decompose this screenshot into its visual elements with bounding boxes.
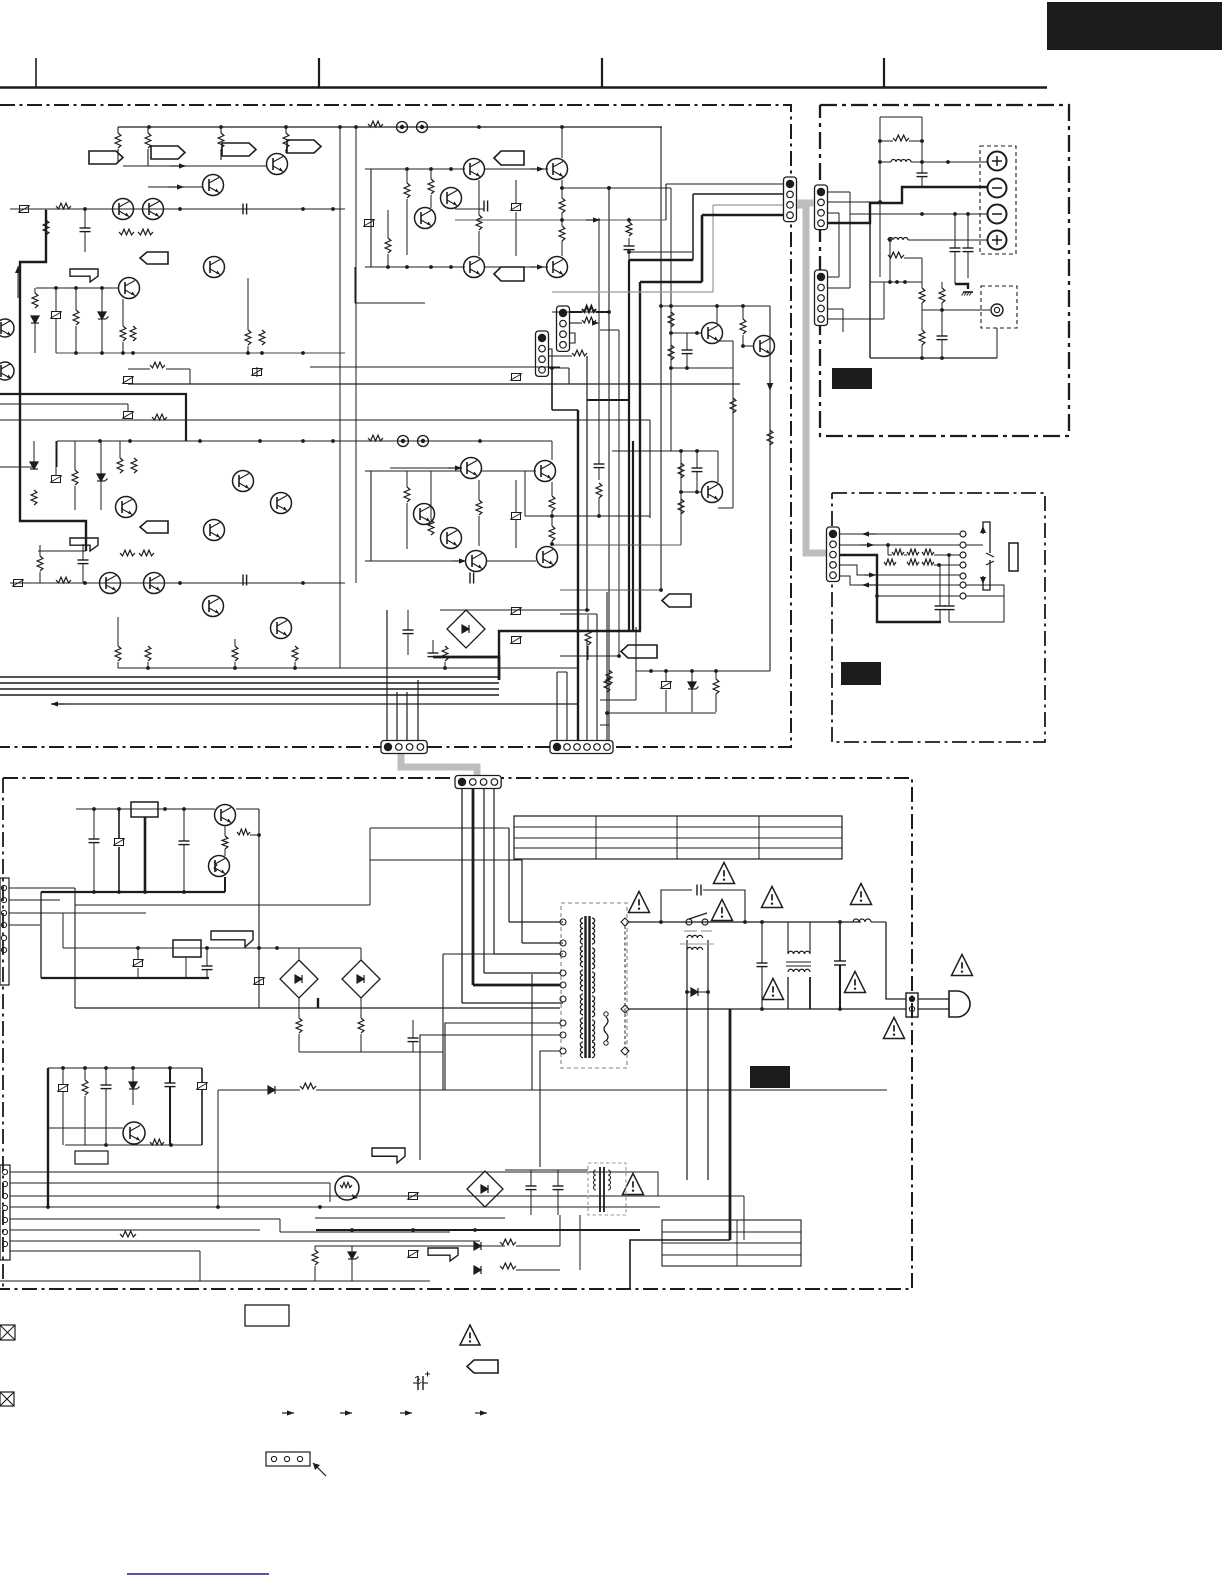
wire bbox=[551, 368, 553, 410]
warning triangle bbox=[851, 883, 872, 904]
resistor R139 bbox=[476, 215, 482, 230]
wire bus B1 bbox=[0, 676, 499, 678]
wire bbox=[0, 419, 650, 421]
warning triangle bbox=[714, 862, 735, 883]
legend polarized cap symbol bbox=[417, 1376, 419, 1390]
resistor R301 bbox=[893, 135, 909, 141]
jack contact bend bbox=[966, 544, 983, 546]
black label box bbox=[832, 368, 872, 389]
resistor R305 bbox=[919, 288, 925, 303]
wire bbox=[556, 672, 558, 741]
callout bbox=[70, 269, 98, 282]
warning triangle bbox=[623, 1173, 644, 1194]
trimmer bbox=[365, 220, 374, 227]
wire base bbox=[671, 332, 701, 334]
wire long return bbox=[128, 383, 740, 385]
transistor Q507 (photocoupler) bbox=[335, 1176, 359, 1200]
warning triangle bbox=[629, 891, 650, 912]
wire to +L terminal bbox=[922, 161, 987, 163]
zener D103 bbox=[98, 312, 106, 319]
resistor R233 bbox=[428, 520, 434, 535]
wire bbox=[365, 168, 465, 170]
transistor Q115 bbox=[441, 188, 462, 209]
diode D505 bbox=[691, 988, 698, 996]
transistor Q505 bbox=[123, 1122, 145, 1144]
resistor R145 bbox=[582, 306, 596, 312]
wire bbox=[888, 554, 892, 556]
label flag bbox=[89, 151, 123, 164]
wire bbox=[596, 614, 598, 741]
wire bbox=[549, 367, 569, 369]
wire heavy bbox=[587, 399, 629, 401]
resistor R105 bbox=[218, 133, 224, 148]
black label box bbox=[841, 662, 881, 685]
transistor Q225 bbox=[535, 461, 556, 482]
resistor R121 bbox=[120, 326, 126, 341]
jack sleeve bbox=[1009, 543, 1018, 571]
resistor R135 bbox=[428, 179, 434, 194]
wire bbox=[493, 789, 495, 954]
wire bbox=[420, 1035, 560, 1160]
wire bbox=[300, 947, 361, 949]
zener D513 bbox=[348, 1252, 356, 1259]
trimmer bbox=[255, 978, 264, 985]
bridge rectifier D205 bbox=[447, 610, 485, 648]
transistor Q101 bbox=[267, 154, 288, 175]
capacitor C105 bbox=[483, 201, 485, 212]
wire to -R terminal bbox=[850, 213, 988, 215]
bridge rectifier D501 bbox=[280, 960, 318, 998]
resistor R111 bbox=[43, 220, 49, 235]
transistor Q209 bbox=[100, 573, 121, 594]
wire bbox=[719, 340, 733, 342]
wire bbox=[481, 470, 536, 472]
standby transformer T502 bbox=[686, 940, 688, 1180]
wire bbox=[996, 328, 998, 358]
wire long vertical bbox=[339, 127, 341, 668]
wire bbox=[889, 240, 891, 282]
wire bbox=[442, 954, 444, 1090]
resistor R223 bbox=[232, 646, 238, 661]
capacitor C301 bbox=[917, 172, 928, 174]
wire bbox=[0, 466, 34, 468]
resistor R147 bbox=[582, 317, 596, 323]
capacitor C505 bbox=[202, 965, 213, 967]
transistor Q203 bbox=[233, 471, 254, 492]
wire bbox=[649, 420, 651, 518]
wire heavy rail bbox=[41, 891, 225, 893]
resistor R403 bbox=[907, 549, 919, 555]
wire bbox=[390, 467, 461, 469]
capacitor C203 bbox=[242, 575, 244, 586]
resistor R140 bbox=[626, 222, 632, 236]
diode D201 bbox=[30, 462, 38, 469]
trimmer bbox=[512, 637, 521, 644]
grey wire link bbox=[797, 200, 814, 207]
transistor Q233 (FET) bbox=[0, 319, 14, 337]
wire heavy bbox=[702, 214, 787, 217]
phono jack bbox=[991, 304, 1003, 316]
fuse symbol legend 2 bbox=[0, 1392, 14, 1406]
transistor Q103 bbox=[203, 175, 224, 196]
heatsink ground bbox=[963, 291, 973, 293]
wire bbox=[922, 309, 990, 311]
wire bbox=[365, 560, 465, 562]
resistor R155 bbox=[668, 345, 674, 360]
wire bbox=[840, 576, 960, 585]
wire rail2 bbox=[63, 947, 300, 949]
resistor R163 bbox=[678, 463, 684, 478]
transistor Q105 bbox=[113, 199, 134, 220]
wire bbox=[608, 188, 610, 741]
warning triangle bbox=[884, 1017, 905, 1038]
resistor R517 bbox=[500, 1239, 516, 1245]
wire bbox=[561, 127, 563, 158]
trimmer bbox=[59, 1085, 68, 1092]
resistor R113 bbox=[119, 229, 134, 235]
resistor R165 bbox=[678, 499, 684, 514]
wire bus risers bbox=[386, 610, 388, 741]
wire bbox=[355, 302, 425, 304]
transistor Q117 bbox=[415, 208, 436, 229]
wire bus B2 bbox=[0, 682, 499, 684]
diode D509 bbox=[268, 1086, 275, 1094]
transistor Q109 bbox=[204, 257, 225, 278]
wire bbox=[189, 369, 191, 384]
trimmer bbox=[134, 960, 143, 967]
wire bbox=[870, 281, 922, 283]
capacitor C117 bbox=[692, 467, 703, 469]
resistor R107 bbox=[283, 133, 289, 148]
wire bbox=[840, 544, 960, 546]
resistor R211 bbox=[56, 577, 71, 583]
resistor R247 bbox=[713, 679, 719, 694]
terminal - (R) bbox=[988, 205, 1007, 224]
wire bbox=[827, 276, 839, 278]
connector CN405 bbox=[0, 1165, 10, 1260]
label flag bbox=[287, 140, 321, 153]
capacitor C501 bbox=[89, 838, 100, 840]
resistor R502 bbox=[237, 829, 250, 835]
title block (black) bbox=[1047, 2, 1222, 50]
label flag bbox=[222, 143, 256, 156]
wire bbox=[827, 287, 850, 289]
wire bbox=[670, 188, 672, 451]
wire bbox=[531, 974, 533, 1090]
label flag bbox=[140, 521, 168, 533]
wire bbox=[743, 345, 753, 347]
resistor R519 bbox=[500, 1263, 516, 1269]
wire bbox=[560, 589, 661, 591]
wire bbox=[62, 913, 64, 948]
connector CN203 bbox=[815, 270, 828, 326]
small transformer T503 bbox=[588, 1163, 626, 1215]
ruler tick 2 bbox=[318, 58, 320, 87]
table T2 bbox=[662, 1220, 801, 1266]
wire bbox=[635, 627, 637, 671]
connector CN201 bbox=[815, 185, 828, 230]
wire bbox=[566, 672, 568, 741]
label flag bbox=[151, 146, 185, 159]
wire bbox=[10, 1182, 330, 1184]
wire bbox=[0, 1280, 430, 1282]
wire bbox=[570, 333, 575, 343]
trimmer bbox=[662, 682, 671, 689]
resistor R209 bbox=[31, 490, 37, 505]
wire bbox=[505, 1169, 588, 1171]
legend arrow 1 bbox=[282, 1412, 294, 1414]
wire heavy bbox=[472, 789, 475, 985]
wire bbox=[370, 471, 372, 561]
resistor R131 bbox=[368, 121, 383, 127]
wire bbox=[462, 1002, 563, 1004]
choke L501 bbox=[788, 951, 810, 954]
transformer terminals bbox=[560, 919, 566, 925]
wire thick return bbox=[0, 394, 186, 441]
wire bbox=[484, 168, 548, 170]
legend warning triangle bbox=[460, 1325, 480, 1345]
wire rail bbox=[57, 440, 552, 442]
bottom link underline (blue) bbox=[127, 1573, 269, 1575]
wire bbox=[75, 1007, 560, 1009]
connector CN109 bbox=[381, 741, 427, 754]
wire bbox=[9, 899, 60, 901]
wire rail bbox=[48, 1067, 202, 1069]
wire bbox=[365, 470, 461, 472]
resistor R407 bbox=[884, 559, 896, 565]
wire top supply rail bbox=[118, 126, 662, 128]
wire bbox=[524, 471, 526, 516]
resistor R137 bbox=[385, 238, 391, 253]
capacitor C205 bbox=[469, 573, 471, 584]
legend box bbox=[245, 1305, 289, 1326]
wire bbox=[494, 953, 560, 955]
trimmer bbox=[124, 412, 133, 419]
legend flag bbox=[467, 1360, 498, 1373]
wire heavy bbox=[552, 409, 578, 411]
resistor R117 bbox=[32, 293, 38, 308]
wire bbox=[949, 596, 1004, 622]
wire bbox=[827, 201, 880, 203]
wire bbox=[148, 186, 203, 188]
trimmer bbox=[253, 369, 262, 376]
trimmer bbox=[52, 476, 61, 483]
transistor Q501 bbox=[215, 805, 236, 826]
jumper J201 bbox=[398, 436, 409, 447]
wire bbox=[9, 887, 75, 889]
resistor R513 bbox=[120, 1231, 136, 1237]
resistor R252 bbox=[549, 496, 555, 511]
wire bbox=[551, 441, 553, 460]
resistor R249 bbox=[150, 362, 165, 368]
wire bbox=[934, 564, 960, 566]
wire rail bbox=[661, 305, 770, 307]
transistor Q119 bbox=[464, 257, 485, 278]
wire input rail bbox=[10, 208, 345, 210]
wire heavy rail bbox=[316, 1229, 640, 1231]
wire bottom rail bbox=[65, 1144, 202, 1146]
wire bbox=[310, 366, 560, 368]
wire bus B4 bbox=[0, 694, 499, 696]
jack contacts bbox=[960, 531, 966, 537]
resistor R151 bbox=[606, 670, 612, 685]
wire bbox=[549, 349, 552, 368]
wire bbox=[455, 219, 666, 221]
page top ruler line bbox=[0, 86, 1047, 89]
capacitor C211 bbox=[428, 652, 439, 654]
trimmer bbox=[198, 1083, 207, 1090]
transformer T501 dashed enclosure bbox=[561, 903, 627, 1068]
label flag bbox=[494, 267, 524, 281]
wire bbox=[877, 595, 960, 597]
wire bbox=[827, 212, 839, 214]
wire bbox=[560, 655, 619, 657]
grey harness wire W1 (amp to PSU) bbox=[401, 749, 477, 779]
resistor R401 bbox=[892, 549, 904, 555]
wire bbox=[185, 957, 187, 978]
wire bbox=[606, 592, 608, 741]
resistor R515 bbox=[312, 1250, 318, 1265]
transistor Q129 bbox=[702, 482, 723, 503]
trimmer bbox=[512, 608, 521, 615]
wire bbox=[743, 1196, 745, 1240]
trimmer bbox=[124, 377, 133, 384]
callout bbox=[211, 931, 253, 947]
resistor R153 bbox=[668, 312, 674, 327]
legend arrow 4 bbox=[475, 1412, 487, 1414]
resistor R149 bbox=[572, 350, 587, 356]
coil L303 bbox=[888, 238, 908, 241]
connector CN105 bbox=[784, 177, 797, 222]
wire bbox=[299, 1051, 443, 1053]
capacitor C103 bbox=[242, 204, 244, 215]
terminal + (L) bbox=[988, 152, 1007, 171]
warning triangle bbox=[845, 971, 866, 992]
wire bbox=[10, 1195, 744, 1197]
resistor R221 bbox=[145, 646, 151, 661]
legend box small bbox=[75, 1151, 108, 1164]
wire bbox=[10, 1250, 200, 1252]
diode D515 bbox=[474, 1242, 481, 1250]
jumper J101 bbox=[397, 122, 408, 133]
trimmer bbox=[409, 1251, 418, 1258]
jack lever ring bbox=[986, 561, 994, 565]
wire bbox=[680, 451, 682, 545]
resistor R229 bbox=[604, 677, 610, 692]
resistor R205 bbox=[117, 458, 123, 473]
grey harness wire W2 (amp to headphone board) bbox=[797, 205, 831, 553]
ruler tick 1 bbox=[35, 58, 37, 87]
capacitor C115 bbox=[682, 349, 693, 351]
resistor R507 bbox=[82, 1080, 88, 1095]
diode D101 bbox=[31, 316, 39, 323]
coil L301 bbox=[891, 160, 911, 163]
resistor R161 bbox=[767, 430, 773, 445]
wire bbox=[600, 724, 609, 726]
wire heavy bbox=[840, 555, 941, 622]
wire heavy bbox=[628, 260, 630, 631]
capacitor C209 bbox=[403, 629, 414, 631]
transistor Q201 bbox=[116, 497, 137, 518]
wire bbox=[365, 266, 465, 268]
wire bbox=[607, 712, 716, 714]
connector CN403 bbox=[0, 878, 9, 985]
resistor R303 bbox=[888, 252, 904, 258]
wire grey bbox=[552, 291, 713, 293]
wire bbox=[559, 1215, 561, 1246]
black label box bbox=[750, 1066, 790, 1088]
resistor R115 bbox=[138, 229, 153, 235]
wire bbox=[217, 1090, 219, 1207]
wire bbox=[315, 1217, 505, 1219]
transistor Q125 bbox=[702, 323, 723, 344]
wire emitter with arrow bbox=[769, 306, 771, 671]
trimmer bbox=[52, 312, 61, 319]
wire bbox=[557, 671, 567, 673]
wire bottom rail bbox=[870, 357, 997, 359]
wire base bbox=[681, 491, 701, 493]
bridge rectifier D503 bbox=[342, 960, 380, 998]
legend connector bbox=[266, 1452, 310, 1466]
wire bbox=[966, 585, 1004, 596]
resistor R101 bbox=[115, 133, 121, 148]
relay RY503 bbox=[173, 940, 201, 957]
resistor R511 bbox=[300, 1083, 316, 1089]
transistor Q107 bbox=[143, 199, 164, 220]
capacitor C201 bbox=[78, 559, 89, 561]
capacitor C101 bbox=[80, 227, 91, 229]
wire bbox=[10, 1206, 660, 1208]
label flag bbox=[140, 252, 168, 264]
resistor R509 bbox=[150, 1139, 164, 1145]
wire bbox=[445, 1023, 560, 1090]
thermal fuse bbox=[604, 1017, 608, 1041]
wire heavy bbox=[317, 998, 319, 1008]
terminal + (R) bbox=[988, 231, 1007, 250]
resistor R307 bbox=[939, 288, 945, 303]
legend pointer arrow bbox=[313, 1463, 326, 1476]
wire heavy bbox=[729, 1009, 732, 1240]
AC plug bbox=[949, 991, 970, 1017]
wire bbox=[840, 565, 960, 575]
resistor R123 bbox=[130, 326, 136, 341]
wire bbox=[666, 183, 787, 185]
wire rail bbox=[671, 367, 733, 369]
wire bbox=[440, 609, 590, 611]
capacitor C515 bbox=[101, 1084, 112, 1086]
fuse symbol legend 1 bbox=[0, 1325, 15, 1340]
wire bbox=[717, 451, 719, 482]
relay RY501 bbox=[131, 802, 158, 817]
warning triangle bbox=[952, 954, 973, 975]
wire bbox=[75, 904, 370, 906]
wire bbox=[660, 127, 662, 590]
wire bbox=[10, 1229, 260, 1231]
table T1 bbox=[514, 816, 842, 859]
wire bottom block rail bbox=[118, 667, 577, 669]
trimmer bbox=[20, 206, 29, 213]
resistor R503 bbox=[296, 1018, 302, 1033]
wire heavy bbox=[639, 282, 641, 631]
resistor R159 bbox=[740, 319, 746, 334]
transformer tap diamonds bbox=[621, 918, 629, 926]
resistor R251 bbox=[152, 414, 167, 420]
trimmer bbox=[512, 374, 521, 381]
wire bbox=[486, 560, 536, 562]
transformer secondary windings bbox=[580, 918, 583, 944]
wire bbox=[521, 860, 523, 943]
resistor R254 bbox=[549, 526, 555, 541]
